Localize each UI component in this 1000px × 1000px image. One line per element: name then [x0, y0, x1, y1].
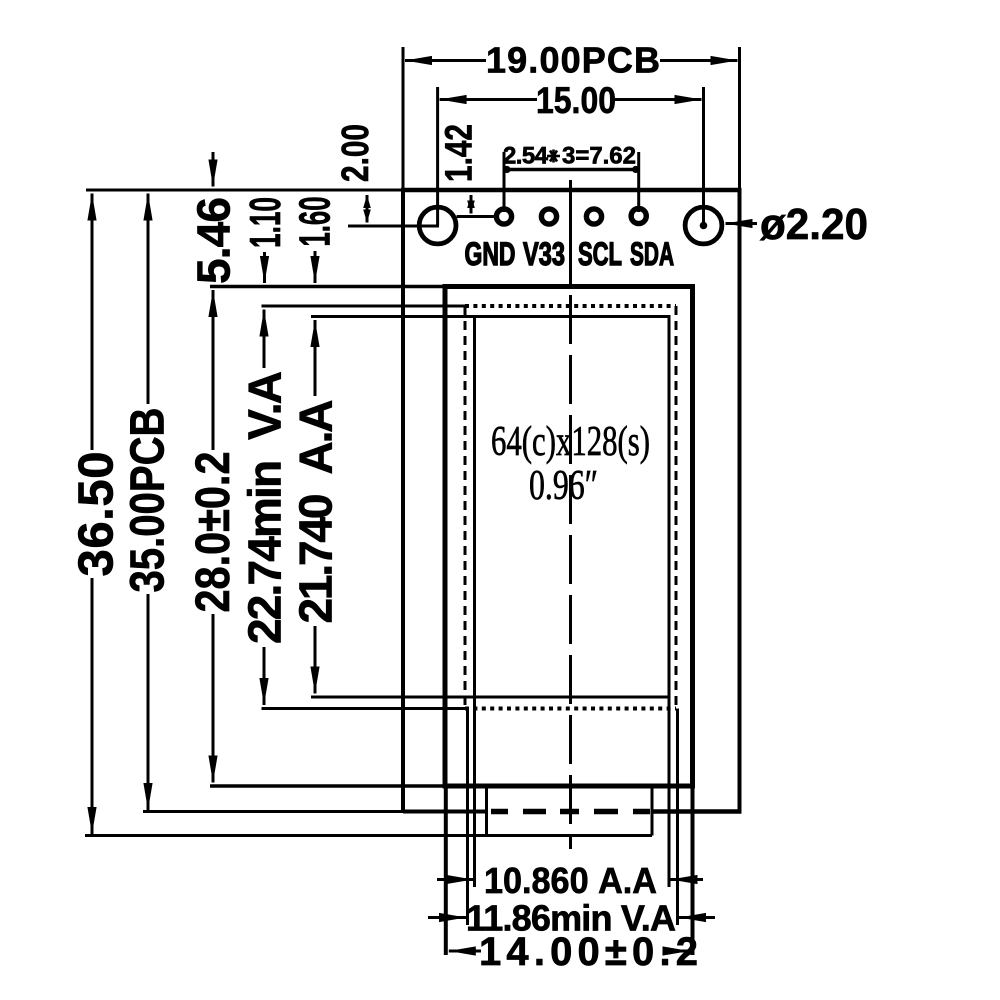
dimension 15.00 line right segment with arrow	[615, 98, 702, 101]
dimension 1.60 down arrow to panel top	[314, 251, 317, 283]
svg-text:1.10: 1.10	[241, 197, 290, 248]
A.A bottom edge extension to left	[311, 696, 475, 699]
dimension 5.46 top arrow (outside, pointing down)	[212, 152, 215, 187]
pin hole GND	[496, 209, 511, 224]
asterisk star between 2.54 and 3	[547, 150, 560, 163]
extension line below A.A right edge	[668, 697, 671, 887]
dimension 28.0 bottom arrow	[212, 614, 215, 783]
dimension 10.860 A.A right arrow	[671, 878, 704, 881]
V.A dashed left edge	[464, 306, 467, 709]
pin hole SDA	[631, 208, 646, 223]
svg-text:19.00PCB: 19.00PCB	[486, 40, 660, 81]
svg-text:10.860 A.A: 10.860 A.A	[484, 860, 657, 901]
dimension 35.00PCB top arrow	[147, 194, 150, 405]
mounting hole left	[419, 207, 456, 244]
dimension 19.00PCB line right segment with arrow	[660, 59, 738, 62]
dimension 19.00PCB line left segment with arrow	[405, 59, 486, 62]
svg-text:3=7.62: 3=7.62	[562, 143, 636, 170]
dimension 14.00+-0.2 right arrow	[665, 950, 690, 953]
display panel outline (thick rectangle 14.00 x 28.0)	[445, 287, 693, 787]
pin hole SCL	[586, 209, 601, 224]
svg-text:35.00PCB: 35.00PCB	[122, 408, 175, 593]
extension line from 7.62 down to SDA pin	[637, 152, 640, 212]
tick dot right end of 7.62 line	[632, 166, 639, 173]
PCB bottom edge solid left part	[403, 810, 487, 814]
dimension 21.740 A.A bottom arrow	[314, 626, 317, 694]
svg-text:ø2.20: ø2.20	[760, 200, 868, 249]
dimension 22.74min V.A bottom arrow	[263, 647, 266, 705]
PCB outline right edge	[738, 190, 742, 813]
vertical centerline solid segment through pin header	[569, 180, 572, 285]
A.A active area rectangle	[475, 317, 670, 698]
svg-text:GND: GND	[465, 236, 516, 272]
svg-text:14.00±0.2: 14.00±0.2	[479, 930, 698, 974]
A.A top edge extension to left	[311, 315, 475, 318]
mounting hole right	[685, 207, 722, 244]
extension line hole-center right (15.00)	[702, 87, 705, 226]
PCB bottom edge extension to left	[143, 810, 403, 813]
extension line below panel right edge	[691, 786, 695, 955]
dimension 11.86min V.A left arrow	[428, 916, 466, 919]
dimension 1.42 arrows	[470, 195, 473, 206]
tick dot left end of 7.62 line	[503, 166, 510, 173]
V.A bottom edge extension to left	[262, 707, 466, 710]
dimension 22.74min V.A top arrow	[263, 310, 266, 369]
dimension 36.50 bottom arrow	[91, 578, 94, 834]
svg-text:15.00: 15.00	[536, 80, 616, 121]
extension line hole-center left (15.00)	[436, 87, 439, 226]
svg-text:28.0±0.2: 28.0±0.2	[187, 452, 240, 613]
dimension 15.00 line left segment with arrow	[440, 98, 537, 101]
extension line below A.A left edge	[473, 697, 476, 887]
svg-text:V33: V33	[523, 236, 565, 272]
svg-text:2.54: 2.54	[503, 143, 549, 170]
extension line below V.A right edge	[676, 709, 679, 926]
svg-text:2.00: 2.00	[335, 124, 377, 182]
dimension 11.86min V.A right arrow	[679, 916, 715, 919]
dimension 21.740 A.A top arrow	[314, 320, 317, 396]
svg-text:1.60: 1.60	[291, 197, 340, 247]
pin hole V33	[541, 209, 556, 224]
dimension 35.00PCB bottom arrow	[147, 594, 150, 810]
connector tab right edge	[651, 786, 654, 836]
V.A dotted rectangle top edge	[465, 304, 676, 308]
PCB bottom edge solid right part	[653, 809, 742, 814]
svg-text:5.46: 5.46	[188, 197, 240, 284]
horizontal line at mounting hole center height (2.00)	[348, 225, 439, 228]
PCB top edge extension line to left	[86, 189, 403, 192]
dimension 10.860 A.A left arrow	[437, 878, 473, 881]
V.A dotted rectangle bottom edge	[465, 707, 676, 711]
extension line below panel left edge	[444, 786, 448, 955]
dimension 28.0 top arrow (also 5.46 bottom arrow)	[212, 290, 215, 450]
dimension 36.50 top arrow	[91, 194, 94, 451]
connector tab left edge	[485, 786, 488, 836]
vertical centerline dashed	[569, 295, 572, 849]
svg-text:0.96″: 0.96″	[529, 463, 598, 509]
extension line from 7.62 down to GND pin	[503, 152, 506, 212]
svg-text:1.42: 1.42	[439, 124, 481, 182]
PCB outline top edge	[401, 188, 742, 193]
dimension 2.54*3=7.62 line	[504, 168, 639, 172]
svg-text:SCL: SCL	[578, 236, 622, 272]
diameter leader arrow to right mounting hole	[726, 222, 758, 225]
dimension 2.00 arrows	[366, 195, 369, 210]
dimension 1.10 down arrow to panel top	[263, 252, 266, 283]
PCB left edge extension above	[402, 47, 405, 190]
mounting hole right center dot	[700, 222, 708, 230]
dimension 14.00+-0.2 left arrow	[449, 950, 481, 953]
panel bottom edge extension to left	[210, 784, 445, 788]
PCB bottom edge hidden dashes behind connector tab	[491, 809, 508, 815]
PCB outline left edge	[401, 190, 405, 813]
svg-text:36.50: 36.50	[70, 452, 124, 577]
extension line below V.A left edge	[466, 709, 469, 926]
V.A dashed right edge	[675, 306, 678, 709]
svg-text:22.74min V.A: 22.74min V.A	[239, 371, 291, 644]
svg-text:21.740 A.A: 21.740 A.A	[290, 400, 342, 624]
panel top edge extension to left	[210, 285, 445, 289]
PCB right edge extension above	[738, 47, 741, 190]
36.50 extent bottom line / tab bottom edge	[85, 834, 652, 837]
svg-text:64(c)x128(s): 64(c)x128(s)	[491, 419, 650, 465]
svg-text:SDA: SDA	[630, 236, 674, 272]
horizontal line at pin center height (1.42)	[457, 215, 495, 218]
V.A top edge extension to left	[262, 305, 466, 308]
